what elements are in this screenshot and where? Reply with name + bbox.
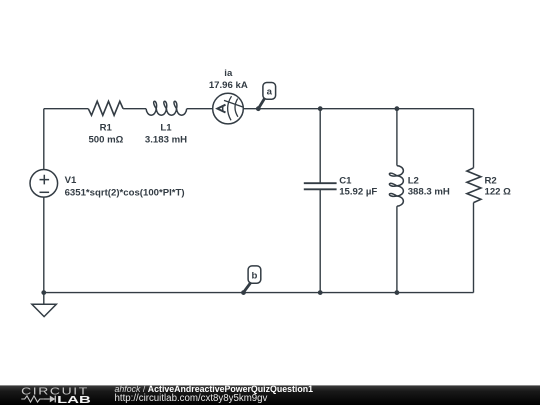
ground bbox=[32, 293, 56, 317]
svg-text:R1: R1 bbox=[100, 123, 113, 134]
wire left vertical (corner to V1 top) bbox=[43, 109, 45, 170]
wire bottom horizontal bbox=[44, 292, 474, 294]
junction dot top L2 bbox=[395, 106, 400, 111]
node a flag bbox=[256, 83, 276, 112]
wire ammeter to right corner bbox=[243, 108, 473, 110]
wire V1 bottom to ground corner bbox=[43, 197, 45, 293]
svg-text:b: b bbox=[251, 271, 257, 282]
junction dot bottom L2 bbox=[395, 290, 400, 295]
inductor L2 bbox=[389, 109, 450, 293]
svg-text:a: a bbox=[267, 87, 273, 98]
CircuitLab logo bbox=[21, 387, 91, 405]
ammeter U1 bbox=[209, 68, 248, 124]
svg-text:R2: R2 bbox=[485, 175, 497, 186]
svg-text:122 Ω: 122 Ω bbox=[485, 187, 512, 198]
footer bar bbox=[0, 385, 540, 405]
voltage source V1 bbox=[30, 170, 185, 199]
svg-text:L1: L1 bbox=[160, 123, 172, 134]
junction dot ground bbox=[41, 290, 46, 295]
svg-text:6351*sqrt(2)*cos(100*PI*T): 6351*sqrt(2)*cos(100*PI*T) bbox=[65, 187, 185, 198]
svg-text:15.92 µF: 15.92 µF bbox=[339, 187, 377, 198]
node b flag bbox=[241, 266, 261, 295]
junction dot bottom C1 bbox=[318, 290, 323, 295]
svg-text:500 mΩ: 500 mΩ bbox=[88, 134, 123, 145]
svg-text:L2: L2 bbox=[408, 175, 419, 186]
capacitor C1 bbox=[304, 109, 378, 293]
wire R1 to L1 bbox=[123, 108, 146, 110]
svg-text:17.96 kA: 17.96 kA bbox=[209, 80, 248, 91]
junction dot top C1 bbox=[318, 106, 323, 111]
resistor R2 bbox=[467, 109, 511, 293]
svg-text:V1: V1 bbox=[65, 175, 77, 186]
resistor R1 bbox=[88, 101, 123, 145]
svg-text:388.3 mH: 388.3 mH bbox=[408, 187, 450, 198]
svg-text:ia: ia bbox=[224, 68, 233, 79]
wire L1 to ammeter bbox=[187, 108, 213, 110]
svg-text:http://circuitlab.com/cxt8y8y5: http://circuitlab.com/cxt8y8y5km9gv bbox=[115, 393, 268, 404]
inductor L1 bbox=[145, 101, 187, 145]
svg-text:3.183 mH: 3.183 mH bbox=[145, 134, 187, 145]
svg-text:C1: C1 bbox=[339, 175, 352, 186]
wire top-left horizontal (corner to R1) bbox=[44, 108, 89, 110]
svg-text:LAB: LAB bbox=[57, 395, 91, 405]
